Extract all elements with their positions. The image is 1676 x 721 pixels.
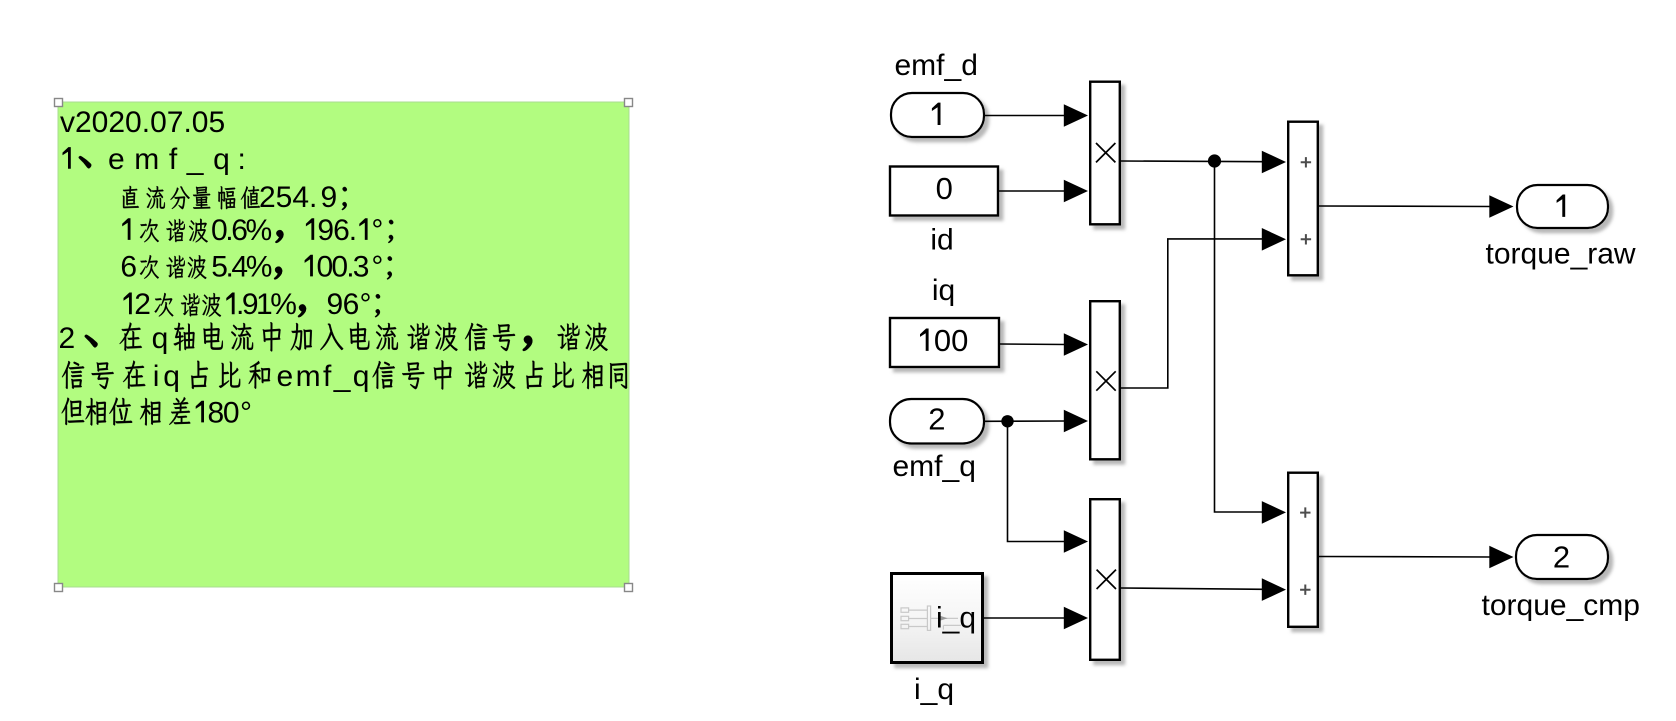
svg-text:.91%: .91%	[236, 288, 296, 321]
constant block 100	[890, 318, 999, 367]
selection handle bottom-right	[625, 584, 633, 592]
inport 2 (emf_q)	[890, 399, 984, 444]
selection handle bottom-left	[55, 584, 63, 592]
wire constant100 to product2 in1	[999, 333, 1088, 356]
wire product3 to sum2 in2	[1121, 578, 1286, 601]
label i_q	[914, 673, 954, 706]
svg-text:2: 2	[59, 322, 76, 355]
wire product2 up to sum1 in2	[1121, 228, 1286, 388]
svg-text:°: °	[371, 214, 383, 247]
subsystem block i_q	[892, 574, 983, 663]
selection handle top-left	[55, 99, 63, 107]
svg-text:96: 96	[327, 288, 359, 321]
svg-text:torque_cmp: torque_cmp	[1482, 589, 1640, 622]
wire inport1 to product1 in1	[984, 104, 1088, 127]
svg-text:q: q	[152, 322, 169, 355]
wire inport2 to product2 in2	[984, 410, 1088, 433]
svg-text:q: q	[163, 360, 180, 393]
label emf_q	[893, 450, 976, 483]
svg-text:9: 9	[321, 181, 338, 214]
product block 1	[1090, 82, 1120, 225]
svg-text:254.: 254.	[259, 181, 317, 214]
outport 1 (torque_raw)	[1517, 185, 1608, 228]
svg-text:0.6%: 0.6%	[211, 214, 272, 247]
label iq	[932, 274, 955, 307]
junction node dot at emf_q	[1001, 415, 1013, 427]
svg-text:00: 00	[934, 323, 968, 358]
svg-text:6: 6	[120, 250, 137, 283]
note text line 1: v2020.07.05	[60, 106, 225, 139]
note text line 3: 直流分量幅值254. 9；	[123, 181, 347, 214]
svg-text:iq: iq	[932, 274, 955, 307]
svg-text:torque_raw: torque_raw	[1486, 237, 1636, 270]
note text line 6: 12次谐波1.91%，96°；	[124, 288, 381, 321]
svg-text:5.4%: 5.4%	[211, 250, 272, 283]
wire sum1 to outport1	[1319, 195, 1514, 218]
svg-text:emf_d: emf_d	[895, 49, 978, 82]
svg-text:emf_q: emf_q	[277, 360, 372, 393]
wire constant0 to product1 in2	[998, 180, 1088, 203]
svg-text:i: i	[153, 360, 160, 393]
svg-text:2: 2	[134, 288, 151, 321]
svg-text:°: °	[360, 288, 372, 321]
svg-text:80: 80	[208, 396, 239, 429]
svg-text:id: id	[930, 224, 953, 257]
svg-text:0: 0	[936, 171, 953, 206]
label torque_cmp	[1482, 589, 1640, 622]
svg-text:°: °	[240, 396, 252, 429]
annotation note box (green)	[58, 102, 629, 587]
svg-text:°: °	[371, 250, 383, 283]
selection handle top-right	[625, 99, 633, 107]
note text line 2: 1、emf_q:	[63, 143, 246, 176]
wire i_q to product3 in2	[984, 607, 1088, 630]
svg-text::: :	[238, 143, 246, 176]
note text line 5: 6次谐波5.4%，100.3°；	[120, 250, 392, 283]
svg-text:v2020.07.05: v2020.07.05	[60, 106, 225, 139]
note text line 9: 但相位相差180°	[62, 396, 252, 429]
inport 1 (emf_d)	[891, 93, 984, 137]
junction node dot	[1208, 154, 1221, 167]
note text line 4: 1次谐波0.6%，196.1°；	[122, 214, 393, 247]
label torque_raw	[1486, 237, 1636, 270]
svg-text:emf_q: emf_q	[893, 450, 976, 483]
svg-text:i_q: i_q	[914, 673, 954, 706]
label emf_d	[895, 49, 978, 82]
note text line 7: 2、在q轴电流中加入电流谐波信号，谐波	[59, 322, 608, 355]
wire emf_q junction down to product3 in1	[1008, 421, 1089, 553]
svg-text:2: 2	[1553, 539, 1570, 574]
svg-text:00.3: 00.3	[317, 250, 369, 283]
wire product1 to sum1 in1	[1121, 151, 1286, 174]
outport 2 (torque_cmp)	[1516, 535, 1608, 579]
svg-text:emf_q: emf_q	[108, 143, 239, 176]
wire sum2 to outport2	[1319, 546, 1514, 569]
label id	[930, 224, 953, 257]
note text line 8: 信号在iq占比和emf_q信号中谐波占比相同	[62, 360, 627, 393]
constant block 0	[890, 167, 998, 216]
sum block 1	[1288, 122, 1318, 276]
wire junction down to sum2 in1	[1215, 161, 1287, 524]
svg-text:2: 2	[928, 402, 945, 437]
svg-text:i_q: i_q	[936, 602, 976, 635]
product block 3	[1090, 499, 1120, 660]
svg-text:96.: 96.	[317, 214, 356, 247]
product block 2	[1090, 301, 1120, 459]
sum block 2	[1288, 473, 1318, 627]
